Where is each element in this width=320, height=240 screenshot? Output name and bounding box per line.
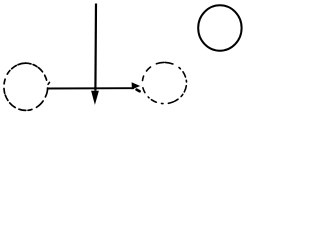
left circle right-edge tick — [48, 82, 49, 84]
arrowhead right — [132, 82, 141, 89]
node A dashed circle left — [4, 63, 47, 110]
arrowhead right lower wing — [137, 90, 140, 92]
left circle right-edge hook into line — [45, 88, 47, 97]
arrowhead down — [91, 91, 99, 105]
wire horizontal arrow shaft — [47, 87, 134, 89]
node B dashed circle right — [143, 62, 187, 103]
node C solid circle top right — [198, 5, 241, 50]
wire vertical arrow shaft — [94, 4, 97, 91]
